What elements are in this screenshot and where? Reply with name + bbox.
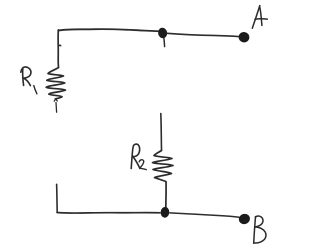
resistor R2	[153, 151, 174, 208]
wire	[167, 33, 239, 36]
wire	[58, 30, 60, 68]
wire	[170, 213, 239, 217]
junction node	[157, 27, 168, 47]
wire	[58, 29, 162, 31]
label B	[254, 216, 266, 243]
label R2	[131, 144, 146, 170]
node B	[238, 213, 251, 226]
resistor R1	[46, 68, 65, 113]
junction node	[160, 206, 170, 218]
wire	[56, 184, 59, 212]
label R1	[21, 67, 37, 94]
wire	[57, 212, 160, 215]
wire	[160, 114, 163, 151]
label A	[252, 6, 267, 29]
node A	[238, 31, 250, 43]
